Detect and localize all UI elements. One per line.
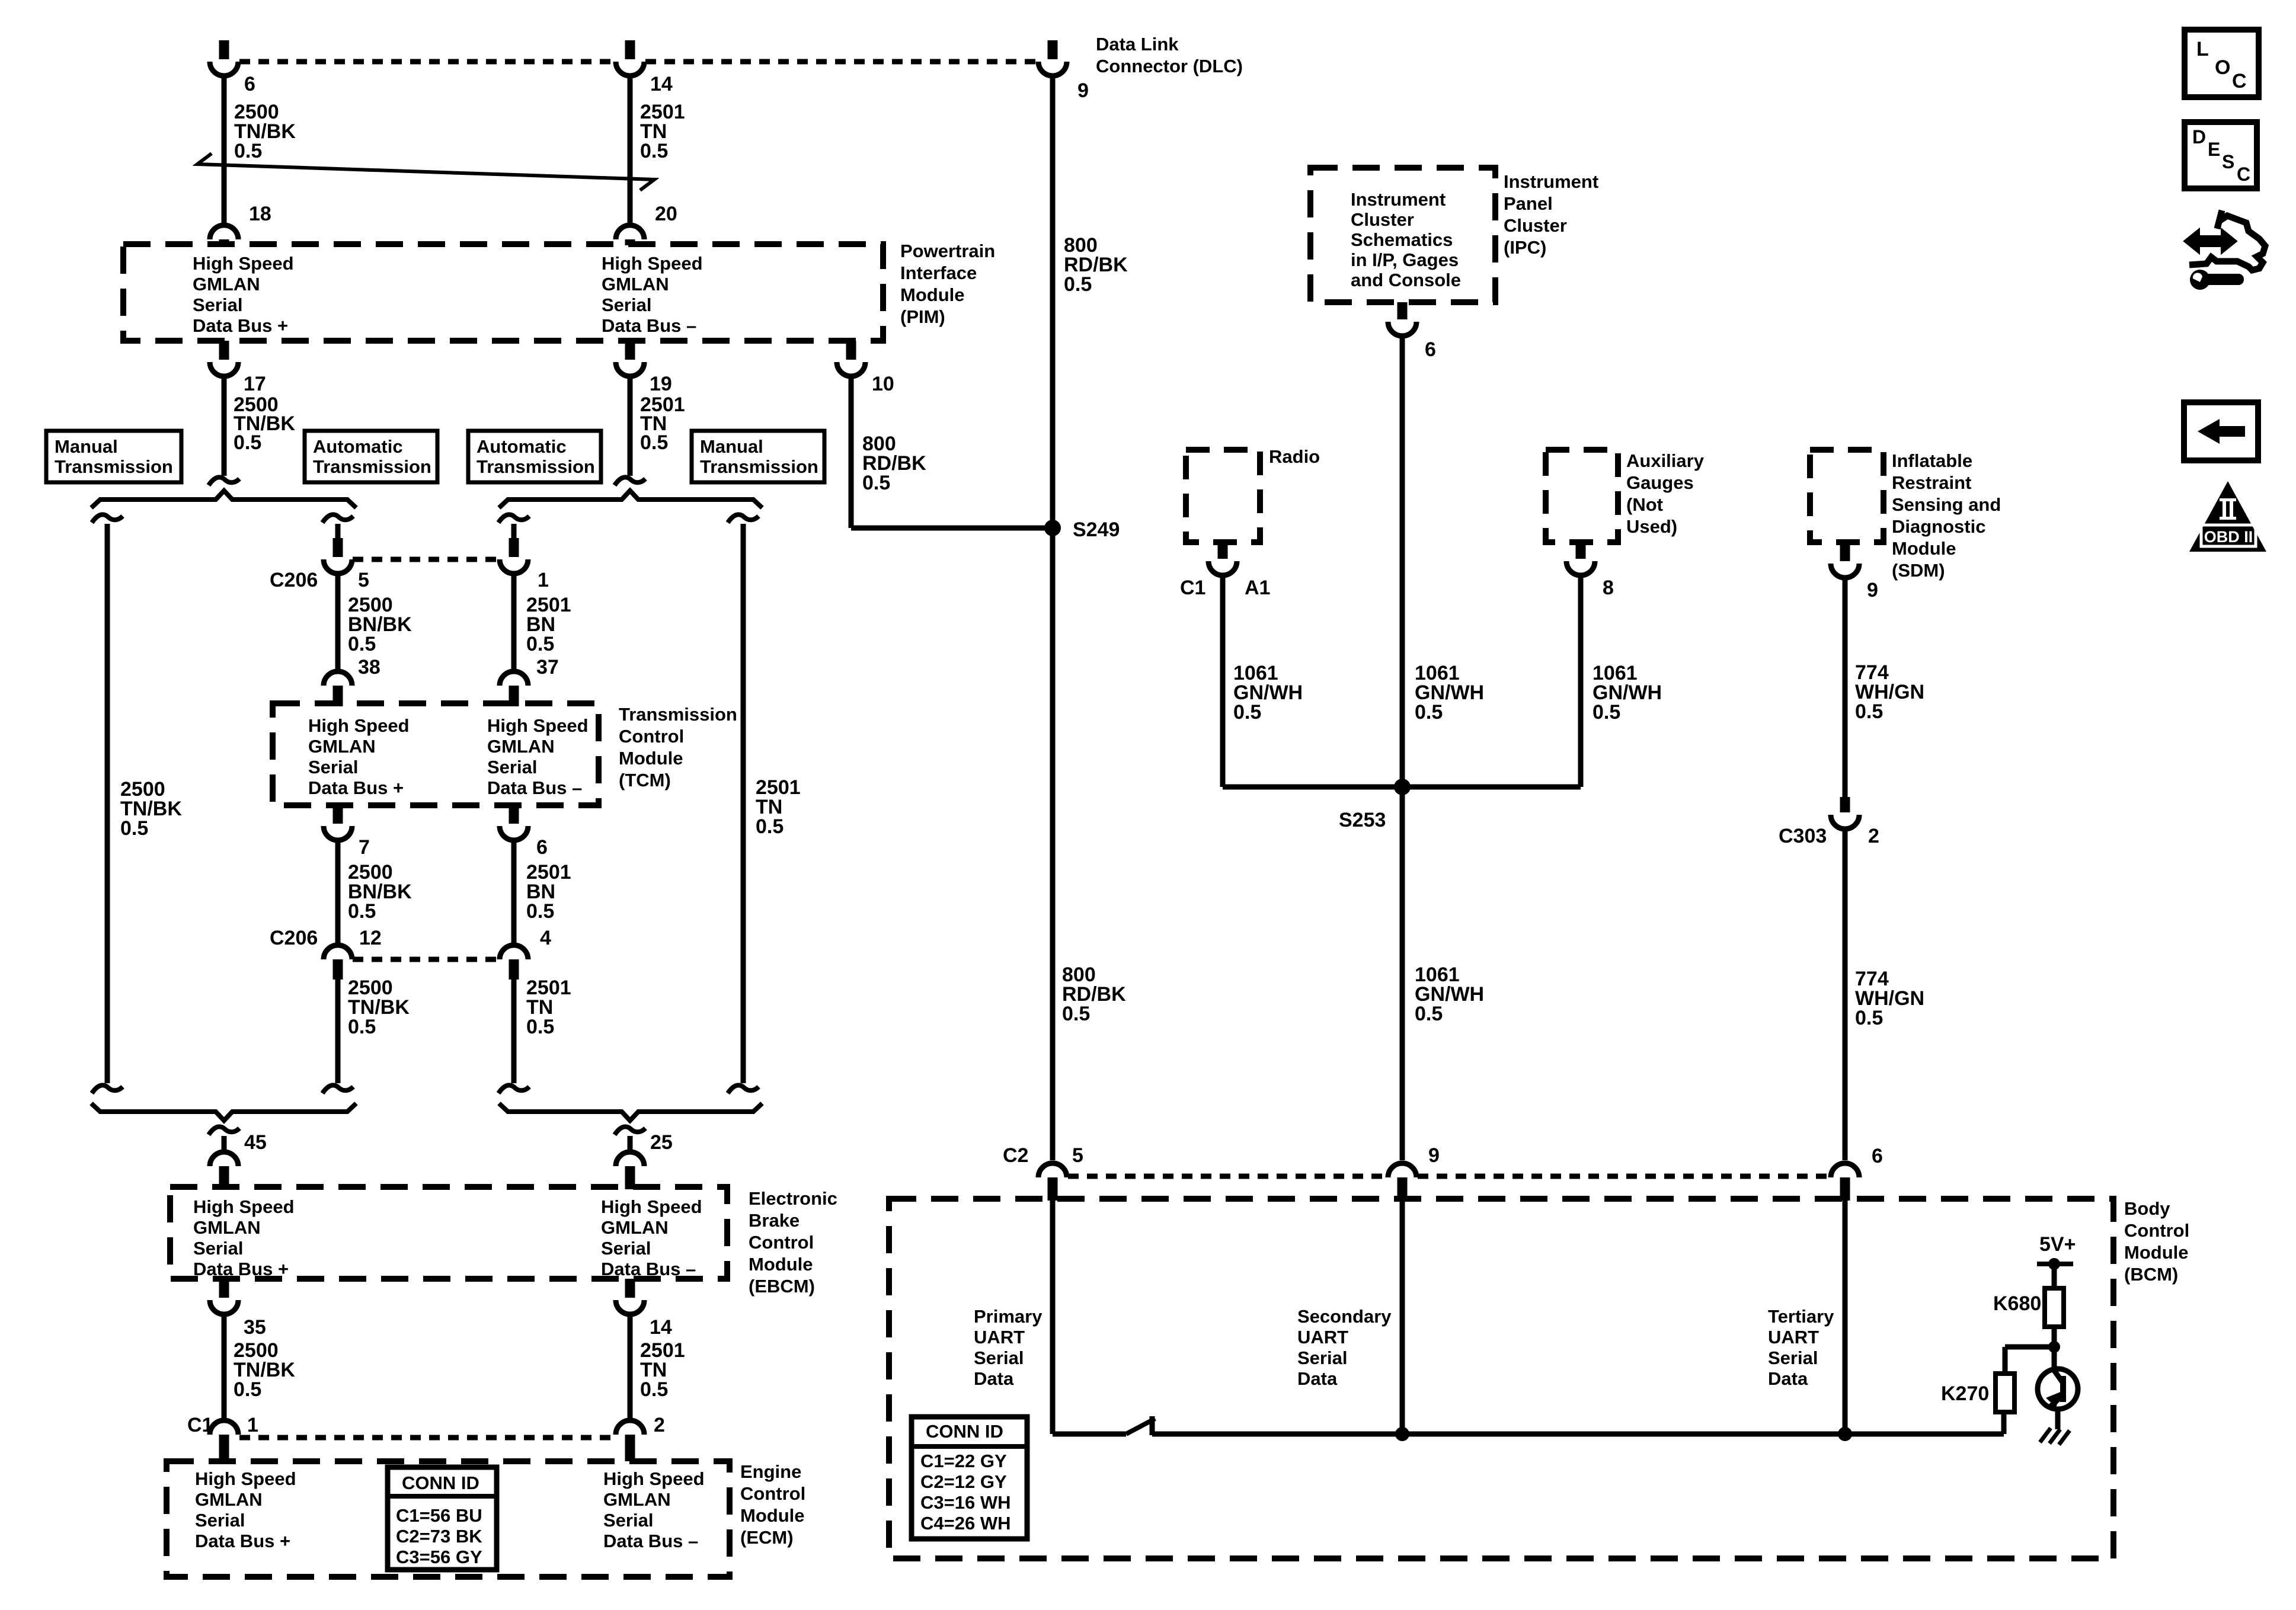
svg-text:S253: S253: [1339, 809, 1386, 831]
svg-text:Manual: Manual: [55, 436, 118, 457]
svg-text:0.5: 0.5: [526, 633, 554, 655]
svg-text:GMLAN: GMLAN: [193, 1217, 261, 1238]
svg-text:4: 4: [540, 927, 551, 949]
svg-text:Serial: Serial: [195, 1510, 245, 1531]
svg-text:Data Bus –: Data Bus –: [487, 777, 582, 798]
svg-text:C: C: [2237, 164, 2250, 185]
svg-text:7: 7: [359, 836, 370, 859]
svg-text:20: 20: [655, 203, 677, 225]
svg-text:CONN ID: CONN ID: [926, 1421, 1003, 1442]
svg-text:Diagnostic: Diagnostic: [1892, 516, 1985, 537]
svg-text:0.5: 0.5: [1415, 1003, 1443, 1025]
svg-text:9: 9: [1867, 579, 1878, 601]
svg-text:Engine: Engine: [740, 1461, 801, 1482]
svg-text:0.5: 0.5: [526, 1016, 554, 1038]
svg-text:C3=16 WH: C3=16 WH: [920, 1492, 1011, 1513]
svg-text:E: E: [2208, 139, 2220, 160]
svg-text:9: 9: [1077, 79, 1089, 102]
svg-text:0.5: 0.5: [526, 900, 554, 923]
svg-text:2: 2: [654, 1414, 665, 1436]
svg-text:Module: Module: [2124, 1242, 2189, 1263]
svg-text:Module: Module: [740, 1505, 805, 1526]
svg-text:Restraint: Restraint: [1892, 472, 1971, 493]
svg-text:0.5: 0.5: [1415, 701, 1443, 724]
svg-text:D: D: [2192, 126, 2206, 148]
svg-text:17: 17: [244, 373, 266, 395]
svg-text:Serial: Serial: [601, 1238, 651, 1259]
svg-text:2: 2: [1868, 825, 1879, 847]
svg-text:Serial: Serial: [487, 757, 537, 777]
svg-text:Serial: Serial: [193, 295, 242, 315]
svg-text:Inflatable: Inflatable: [1892, 450, 1972, 471]
svg-text:19: 19: [650, 373, 672, 395]
svg-text:High Speed: High Speed: [603, 1468, 705, 1489]
svg-text:Transmission: Transmission: [700, 456, 818, 477]
svg-text:0.5: 0.5: [1855, 1007, 1883, 1029]
svg-text:Control: Control: [2124, 1220, 2189, 1241]
svg-text:0.5: 0.5: [234, 1378, 261, 1401]
svg-text:Data Link: Data Link: [1096, 34, 1179, 55]
svg-text:25: 25: [650, 1131, 673, 1154]
svg-text:Control: Control: [740, 1483, 805, 1504]
svg-text:Module: Module: [749, 1254, 813, 1275]
svg-text:9: 9: [1428, 1144, 1440, 1167]
svg-text:0.5: 0.5: [1233, 701, 1261, 724]
svg-text:(ECM): (ECM): [740, 1527, 794, 1548]
svg-text:12: 12: [359, 927, 382, 949]
svg-text:L: L: [2196, 38, 2209, 60]
svg-text:K270: K270: [1941, 1382, 1989, 1405]
svg-text:S249: S249: [1073, 518, 1120, 541]
svg-text:Serial: Serial: [1768, 1347, 1818, 1368]
svg-text:Control: Control: [749, 1232, 814, 1253]
svg-text:High Speed: High Speed: [602, 253, 703, 274]
svg-text:CONN ID: CONN ID: [402, 1473, 479, 1493]
svg-text:Connector (DLC): Connector (DLC): [1096, 56, 1243, 76]
svg-text:High Speed: High Speed: [195, 1468, 296, 1489]
svg-text:Tertiary: Tertiary: [1768, 1306, 1834, 1327]
svg-text:Automatic: Automatic: [477, 436, 567, 457]
svg-text:Body: Body: [2124, 1198, 2170, 1219]
svg-text:C1=22 GY: C1=22 GY: [920, 1451, 1007, 1471]
svg-text:1: 1: [538, 569, 549, 591]
svg-text:C: C: [2232, 70, 2247, 92]
svg-text:10: 10: [872, 373, 894, 395]
svg-text:in I/P, Gages: in I/P, Gages: [1351, 249, 1459, 270]
svg-text:Data Bus +: Data Bus +: [308, 777, 404, 798]
svg-text:Control: Control: [619, 726, 684, 747]
svg-text:GMLAN: GMLAN: [193, 274, 260, 295]
svg-text:Data: Data: [1297, 1368, 1338, 1389]
svg-text:(IPC): (IPC): [1504, 237, 1546, 258]
svg-text:6: 6: [244, 73, 255, 95]
svg-text:18: 18: [249, 203, 271, 225]
svg-text:Transmission: Transmission: [313, 456, 431, 477]
svg-text:C2: C2: [1003, 1144, 1028, 1167]
svg-text:Data Bus +: Data Bus +: [193, 1259, 289, 1279]
svg-text:(PIM): (PIM): [900, 306, 945, 327]
svg-text:Automatic: Automatic: [313, 436, 403, 457]
svg-text:Gauges: Gauges: [1626, 472, 1694, 493]
svg-text:UART: UART: [1768, 1327, 1819, 1347]
svg-text:(Not: (Not: [1626, 494, 1663, 515]
svg-text:C1=56 BU: C1=56 BU: [396, 1505, 482, 1526]
svg-text:O: O: [2215, 56, 2230, 79]
svg-text:Transmission: Transmission: [477, 456, 595, 477]
svg-text:C206: C206: [270, 927, 318, 949]
svg-text:1: 1: [247, 1414, 258, 1436]
svg-text:0.5: 0.5: [1064, 273, 1092, 296]
svg-text:High Speed: High Speed: [193, 1196, 295, 1217]
svg-text:K680: K680: [1993, 1292, 2041, 1315]
svg-text:0.5: 0.5: [348, 1016, 376, 1038]
svg-text:A1: A1: [1245, 577, 1270, 599]
svg-text:GMLAN: GMLAN: [195, 1489, 263, 1510]
svg-text:Powertrain: Powertrain: [900, 241, 995, 261]
svg-text:0.5: 0.5: [640, 1378, 668, 1401]
svg-text:GMLAN: GMLAN: [601, 1217, 669, 1238]
svg-text:Serial: Serial: [603, 1510, 653, 1531]
svg-text:Data Bus –: Data Bus –: [602, 315, 696, 336]
svg-text:0.5: 0.5: [756, 815, 784, 838]
svg-text:14: 14: [650, 73, 673, 95]
svg-text:C1: C1: [1180, 577, 1205, 599]
svg-text:Cluster: Cluster: [1351, 209, 1414, 230]
svg-text:0.5: 0.5: [862, 472, 890, 494]
svg-text:S: S: [2222, 151, 2234, 172]
svg-text:Serial: Serial: [1297, 1347, 1347, 1368]
svg-text:Transmission: Transmission: [55, 456, 173, 477]
svg-text:Data Bus +: Data Bus +: [193, 315, 288, 336]
svg-text:C2=73 BK: C2=73 BK: [396, 1526, 482, 1547]
svg-text:Interface: Interface: [900, 263, 977, 283]
svg-text:Electronic: Electronic: [749, 1188, 837, 1209]
svg-text:UART: UART: [974, 1327, 1025, 1347]
svg-text:Data Bus +: Data Bus +: [195, 1531, 290, 1551]
svg-text:High Speed: High Speed: [601, 1196, 702, 1217]
svg-text:8: 8: [1603, 577, 1614, 599]
svg-text:45: 45: [244, 1131, 267, 1154]
svg-text:GMLAN: GMLAN: [487, 736, 555, 757]
svg-text:0.5: 0.5: [640, 140, 668, 162]
svg-text:Data Bus –: Data Bus –: [601, 1259, 696, 1279]
svg-text:5V+: 5V+: [2039, 1233, 2076, 1256]
svg-text:0.5: 0.5: [1593, 701, 1620, 724]
svg-text:0.5: 0.5: [234, 140, 262, 162]
svg-text:0.5: 0.5: [120, 817, 148, 840]
svg-text:0.5: 0.5: [640, 431, 668, 454]
svg-text:Cluster: Cluster: [1504, 215, 1567, 236]
svg-text:OBD II: OBD II: [2204, 528, 2253, 546]
svg-text:and Console: and Console: [1351, 270, 1461, 290]
svg-text:High Speed: High Speed: [308, 715, 410, 736]
svg-text:C4=26 WH: C4=26 WH: [920, 1513, 1011, 1534]
svg-text:0.5: 0.5: [1062, 1003, 1090, 1025]
svg-text:Instrument: Instrument: [1504, 171, 1598, 192]
svg-text:(BCM): (BCM): [2124, 1264, 2178, 1285]
svg-text:(EBCM): (EBCM): [749, 1276, 815, 1297]
svg-text:(TCM): (TCM): [619, 770, 671, 790]
svg-text:38: 38: [358, 656, 380, 678]
svg-text:5: 5: [358, 569, 369, 591]
svg-text:Brake: Brake: [749, 1210, 800, 1231]
svg-text:High Speed: High Speed: [193, 253, 294, 274]
svg-text:0.5: 0.5: [348, 633, 376, 655]
svg-text:Data Bus –: Data Bus –: [603, 1531, 698, 1551]
svg-text:37: 37: [536, 656, 559, 678]
svg-text:Module: Module: [1892, 538, 1956, 559]
svg-text:Module: Module: [900, 284, 965, 305]
svg-text:UART: UART: [1297, 1327, 1348, 1347]
svg-text:14: 14: [650, 1316, 672, 1339]
svg-text:Primary: Primary: [974, 1306, 1043, 1327]
svg-text:Sensing and: Sensing and: [1892, 494, 2001, 515]
svg-text:6: 6: [536, 836, 548, 859]
svg-text:Module: Module: [619, 748, 683, 769]
svg-text:Panel: Panel: [1504, 193, 1553, 214]
svg-text:Transmission: Transmission: [619, 704, 737, 725]
svg-text:Manual: Manual: [700, 436, 763, 457]
svg-text:GMLAN: GMLAN: [308, 736, 376, 757]
svg-text:(SDM): (SDM): [1892, 560, 1945, 581]
svg-text:6: 6: [1425, 338, 1436, 361]
svg-text:Secondary: Secondary: [1297, 1306, 1392, 1327]
svg-text:GMLAN: GMLAN: [602, 274, 669, 295]
svg-text:Serial: Serial: [974, 1347, 1024, 1368]
svg-text:Data: Data: [1768, 1368, 1808, 1389]
svg-text:5: 5: [1072, 1144, 1083, 1167]
svg-text:C303: C303: [1779, 825, 1827, 847]
svg-text:C3=56 GY: C3=56 GY: [396, 1547, 482, 1567]
svg-text:High Speed: High Speed: [487, 715, 589, 736]
svg-text:Used): Used): [1626, 516, 1677, 537]
svg-text:35: 35: [244, 1316, 266, 1339]
svg-text:Schematics: Schematics: [1351, 229, 1453, 250]
svg-text:Radio: Radio: [1269, 446, 1320, 467]
svg-text:Auxiliary: Auxiliary: [1626, 450, 1705, 471]
svg-text:Serial: Serial: [193, 1238, 243, 1259]
svg-text:0.5: 0.5: [1855, 700, 1883, 723]
svg-text:C206: C206: [270, 569, 318, 591]
svg-text:Serial: Serial: [308, 757, 358, 777]
svg-text:0.5: 0.5: [234, 431, 261, 454]
svg-text:Serial: Serial: [602, 295, 651, 315]
svg-text:0.5: 0.5: [348, 900, 376, 923]
svg-text:Data: Data: [974, 1368, 1014, 1389]
svg-text:GMLAN: GMLAN: [603, 1489, 671, 1510]
svg-text:6: 6: [1872, 1145, 1883, 1167]
svg-text:C2=12 GY: C2=12 GY: [920, 1471, 1007, 1492]
svg-text:Instrument: Instrument: [1351, 189, 1446, 210]
